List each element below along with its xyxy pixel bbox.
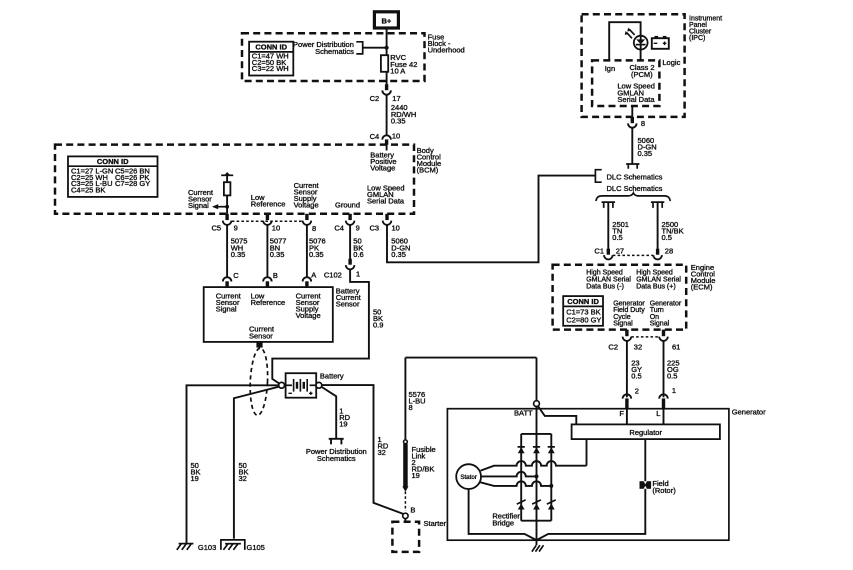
svg-text:10: 10 xyxy=(272,223,280,232)
svg-text:Voltage: Voltage xyxy=(370,163,395,172)
svg-text:G103: G103 xyxy=(198,543,216,552)
svg-text:Ign: Ign xyxy=(605,64,615,73)
svg-text:DLC Schematics: DLC Schematics xyxy=(607,184,663,193)
svg-text:0.35: 0.35 xyxy=(231,250,246,259)
svg-text:10: 10 xyxy=(392,131,400,140)
svg-text:Voltage: Voltage xyxy=(296,311,321,320)
svg-text:10: 10 xyxy=(392,223,400,232)
svg-text:9: 9 xyxy=(356,223,360,232)
svg-text:L: L xyxy=(656,409,660,418)
svg-text:Signal: Signal xyxy=(188,201,209,210)
svg-text:Underhood: Underhood xyxy=(428,46,465,55)
svg-text:Sensor: Sensor xyxy=(249,331,273,340)
svg-text:Reference: Reference xyxy=(251,199,286,208)
svg-text:C2=80 GY: C2=80 GY xyxy=(566,315,601,324)
svg-text:Signal: Signal xyxy=(216,304,237,313)
svg-text:Signal: Signal xyxy=(613,321,633,328)
svg-text:C3=22 WH: C3=22 WH xyxy=(252,64,289,73)
svg-text:32: 32 xyxy=(239,474,247,483)
svg-text:0.9: 0.9 xyxy=(373,320,383,329)
svg-text:Voltage: Voltage xyxy=(294,201,319,210)
svg-text:(IPC): (IPC) xyxy=(689,35,705,42)
svg-text:8: 8 xyxy=(312,224,316,233)
svg-text:Schematics: Schematics xyxy=(317,454,356,463)
svg-text:Ground: Ground xyxy=(335,201,360,210)
svg-text:Logic: Logic xyxy=(662,58,680,67)
svg-text:B: B xyxy=(273,271,278,280)
svg-text:Reference: Reference xyxy=(251,298,286,307)
svg-text:DLC Schematics: DLC Schematics xyxy=(607,173,663,182)
svg-text:2: 2 xyxy=(635,387,639,396)
svg-text:Serial Data: Serial Data xyxy=(617,95,655,104)
svg-text:CONN ID: CONN ID xyxy=(97,157,129,166)
svg-text:(ECM): (ECM) xyxy=(691,282,713,291)
svg-text:8: 8 xyxy=(409,403,413,412)
svg-text:0.5: 0.5 xyxy=(612,233,622,242)
svg-text:0.35: 0.35 xyxy=(391,250,406,259)
svg-text:9: 9 xyxy=(234,223,238,232)
svg-text:C: C xyxy=(233,271,239,280)
svg-text:27: 27 xyxy=(616,246,624,255)
svg-text:(Rotor): (Rotor) xyxy=(652,486,676,495)
svg-text:1: 1 xyxy=(356,270,360,279)
svg-text:Bridge: Bridge xyxy=(492,518,514,527)
svg-text:0.35: 0.35 xyxy=(309,250,324,259)
svg-text:C2: C2 xyxy=(608,342,618,351)
svg-text:19: 19 xyxy=(412,471,420,480)
svg-text:C4: C4 xyxy=(334,223,344,232)
svg-text:Starter: Starter xyxy=(424,519,447,528)
svg-text:61: 61 xyxy=(672,342,680,351)
svg-text:GMLAN Serial: GMLAN Serial xyxy=(636,277,681,284)
svg-text:(PCM): (PCM) xyxy=(631,70,653,79)
svg-text:A: A xyxy=(311,270,316,279)
svg-text:1: 1 xyxy=(672,386,676,395)
svg-text:19: 19 xyxy=(339,420,347,429)
svg-text:C7=28 GY: C7=28 GY xyxy=(115,179,150,188)
svg-text:19: 19 xyxy=(191,474,199,483)
svg-text:High Speed: High Speed xyxy=(636,270,673,277)
svg-text:Sensor: Sensor xyxy=(336,299,360,308)
svg-text:0.35: 0.35 xyxy=(270,250,285,259)
svg-text:17: 17 xyxy=(392,94,400,103)
svg-text:C2: C2 xyxy=(370,94,380,103)
svg-text:8: 8 xyxy=(641,119,645,128)
svg-text:Schematics: Schematics xyxy=(315,47,354,56)
svg-text:0.6: 0.6 xyxy=(353,250,363,259)
svg-text:BATT: BATT xyxy=(514,409,533,418)
svg-text:Data Bus (+): Data Bus (+) xyxy=(636,284,676,291)
svg-text:(BCM): (BCM) xyxy=(417,165,439,174)
svg-text:0.5: 0.5 xyxy=(631,372,641,381)
svg-text:B+: B+ xyxy=(382,16,392,25)
svg-text:G105: G105 xyxy=(247,543,265,552)
svg-text:C4=25 BK: C4=25 BK xyxy=(71,186,105,195)
svg-text:CONN ID: CONN ID xyxy=(567,297,599,306)
svg-text:0.35: 0.35 xyxy=(391,117,406,126)
svg-text:Stator: Stator xyxy=(460,474,477,481)
svg-text:F: F xyxy=(619,409,624,418)
svg-text:0.5: 0.5 xyxy=(667,372,677,381)
svg-text:C102: C102 xyxy=(324,270,342,279)
svg-text:32: 32 xyxy=(634,342,642,351)
svg-text:Signal: Signal xyxy=(650,321,670,328)
svg-text:0.5: 0.5 xyxy=(662,233,672,242)
svg-text:GMLAN Serial: GMLAN Serial xyxy=(586,277,631,284)
svg-text:C3: C3 xyxy=(370,223,380,232)
svg-text:CONN ID: CONN ID xyxy=(255,43,287,52)
svg-text:Serial Data: Serial Data xyxy=(367,197,405,206)
svg-text:10 A: 10 A xyxy=(390,67,405,76)
svg-text:Data Bus (-): Data Bus (-) xyxy=(586,284,624,291)
svg-text:Regulator: Regulator xyxy=(629,428,662,437)
svg-text:C4: C4 xyxy=(370,132,380,141)
svg-text:Generator: Generator xyxy=(732,407,766,416)
svg-text:C1: C1 xyxy=(594,246,604,255)
svg-text:28: 28 xyxy=(665,246,673,255)
svg-text:B: B xyxy=(410,506,415,515)
svg-text:Battery: Battery xyxy=(320,372,344,381)
svg-text:High Speed: High Speed xyxy=(586,270,623,277)
svg-text:32: 32 xyxy=(378,448,386,457)
svg-text:0.35: 0.35 xyxy=(638,149,653,158)
svg-text:C5: C5 xyxy=(212,223,222,232)
